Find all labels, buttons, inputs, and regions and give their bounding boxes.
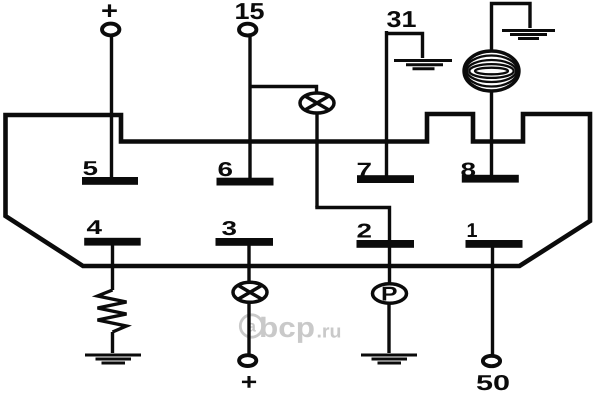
- svg-text:4: 4: [87, 217, 104, 239]
- wire pin 1 to terminal 50: [491, 247, 494, 356]
- wire branch 15 to lamp L1: [250, 87, 317, 93]
- wire terminal 31 to pin 7: [385, 31, 388, 176]
- connector body outline: [6, 114, 591, 266]
- wire branch 31 to ground: [387, 34, 423, 59]
- ground (pin 4 net): [85, 355, 141, 363]
- terminal circle 50: [483, 356, 500, 366]
- wire coil top to ground: [492, 4, 531, 52]
- pin 2 contact bar: [357, 240, 415, 248]
- svg-text:2: 2: [357, 221, 373, 243]
- svg-text:6: 6: [218, 159, 234, 181]
- lamp L1 (indicator between pins 6 and 7): [300, 93, 334, 113]
- lamp L2: [233, 282, 267, 302]
- wire terminal + to pin 5: [110, 35, 113, 177]
- svg-text:5: 5: [83, 158, 99, 180]
- svg-text:P: P: [381, 284, 398, 306]
- svg-text:31: 31: [387, 6, 417, 32]
- wire terminal 15 to pin 6: [248, 35, 251, 178]
- svg-text:.ru: .ru: [317, 322, 342, 343]
- wire junction horizontal to pin 2: [315, 208, 389, 284]
- ground (coil top): [502, 31, 555, 39]
- wire resistor R1 to ground: [111, 332, 114, 353]
- pin 5 contact bar: [82, 177, 138, 185]
- svg-text:7: 7: [357, 160, 373, 182]
- svg-text:8: 8: [461, 160, 477, 182]
- pin 8 contact bar: [462, 175, 519, 183]
- svg-text:3: 3: [222, 218, 238, 240]
- wire lamp L2 to terminal circle: [247, 302, 250, 355]
- ground (pin 2 net): [361, 355, 417, 363]
- svg-text:1: 1: [467, 220, 478, 242]
- pressure switch P (pin 2): [373, 284, 407, 303]
- resistor R1 (zigzag): [98, 290, 127, 332]
- pin 7 contact bar: [357, 175, 414, 183]
- wire P to ground: [387, 303, 390, 353]
- terminal circle (pin 3 bottom): [239, 355, 256, 366]
- svg-text:+: +: [101, 0, 118, 25]
- wire lamp L1 down to junction: [315, 113, 318, 208]
- pin 6 contact bar: [217, 178, 274, 186]
- pin 3 contact bar: [216, 238, 274, 246]
- watermark logo: [240, 312, 341, 343]
- ground (31 net): [394, 61, 452, 69]
- wire pin 3 to lamp L2: [247, 246, 250, 284]
- terminal circle +: [102, 24, 119, 36]
- svg-text:15: 15: [235, 0, 265, 24]
- coil K1 (relay winding, concentric loops): [464, 51, 519, 91]
- svg-text:50: 50: [476, 371, 510, 395]
- terminal circle 15: [239, 24, 256, 36]
- pin 1 contact bar: [466, 240, 523, 248]
- svg-text:bcp: bcp: [259, 312, 315, 343]
- wire coil to pin 8: [490, 92, 493, 175]
- wire pin 4 to resistor R1: [111, 245, 114, 290]
- pin 4 contact bar: [84, 238, 141, 246]
- svg-text:+: +: [241, 369, 258, 395]
